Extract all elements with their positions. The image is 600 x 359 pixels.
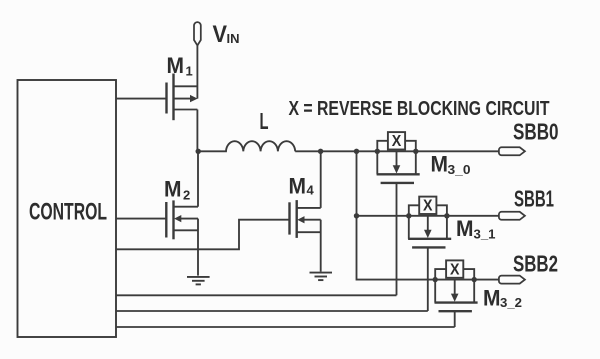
wire gate line M3_1 (116, 310, 428, 312)
VIN terminal pin (194, 22, 201, 45)
CONTROL block U-CTRL (18, 80, 117, 337)
svg-text:3_0: 3_0 (448, 162, 471, 177)
M3_2 label (483, 286, 522, 311)
wire SBB1 rail (357, 215, 500, 217)
svg-text:M: M (164, 176, 182, 201)
svg-text:4: 4 (307, 183, 315, 198)
wire trunk down and SBB2 feed (357, 151, 436, 279)
reverse-blocking switch M3_2 (433, 260, 478, 327)
svg-text:X: X (450, 262, 460, 279)
M3_0 label (431, 152, 471, 178)
transistor M2 (NMOS low-side) (166, 200, 198, 239)
ground (M4) (310, 273, 333, 281)
wire gate line M3_2 (116, 326, 455, 328)
wire main rail SBB0 (295, 150, 499, 152)
node switch-node dot (196, 149, 201, 154)
svg-text:M: M (483, 286, 501, 311)
wire SBB2 rail (435, 279, 499, 281)
wire CONTROL to M1 gate (116, 98, 167, 100)
svg-text:SBB0: SBB0 (513, 118, 559, 144)
svg-text:V: V (213, 21, 228, 48)
node M4 drain dot (318, 149, 323, 154)
svg-text:1: 1 (186, 64, 193, 79)
wire gate line M3_0 (116, 294, 397, 296)
svg-text:3_1: 3_1 (474, 227, 496, 242)
svg-text:3_2: 3_2 (500, 295, 522, 310)
M3_1 label (456, 216, 496, 242)
svg-text:CONTROL: CONTROL (29, 199, 107, 226)
VIN label (213, 21, 240, 48)
svg-text:2: 2 (183, 188, 190, 203)
reverse-blocking switch M3_0 (375, 132, 420, 295)
wire VIN to M1 drain (196, 46, 198, 99)
reverse-blocking switch M3_1 (406, 197, 451, 311)
node trunk top dot (354, 149, 359, 154)
wire M4 drain up to rail (320, 151, 322, 208)
svg-text:X: X (392, 133, 402, 150)
M1 label (167, 53, 193, 79)
svg-text:M: M (167, 53, 185, 78)
SBB1 terminal pin (499, 212, 525, 220)
svg-text:X = REVERSE BLOCKING CIRCUIT: X = REVERSE BLOCKING CIRCUIT (289, 98, 550, 120)
inductor L (198, 141, 295, 151)
transistor M4 (NMOS) (290, 200, 321, 238)
wire M2 source down to ground (197, 219, 199, 276)
svg-text:IN: IN (227, 31, 240, 46)
svg-text:M: M (289, 173, 307, 198)
SBB0 terminal pin (499, 147, 525, 155)
M2 label (164, 176, 190, 202)
svg-text:L: L (260, 108, 269, 134)
svg-text:M: M (456, 216, 474, 241)
svg-text:X: X (423, 198, 433, 215)
wire M1 source down to switch node (196, 110, 198, 152)
node trunk SBB1 dot (354, 213, 359, 218)
svg-text:SBB2: SBB2 (513, 250, 558, 276)
transistor M1 (PMOS high-side) (167, 74, 198, 121)
ground (M2) (187, 277, 210, 285)
wire M4 source down to ground (320, 220, 322, 272)
svg-text:SBB1: SBB1 (514, 186, 554, 212)
M4 label (289, 173, 315, 198)
SBB2 terminal pin (499, 276, 525, 284)
wire M2 drain up to switch node (197, 151, 199, 206)
wire CONTROL to M4 gate (stepped) (116, 220, 290, 250)
wire CONTROL to M2 gate (116, 218, 166, 220)
svg-text:M: M (431, 152, 449, 177)
